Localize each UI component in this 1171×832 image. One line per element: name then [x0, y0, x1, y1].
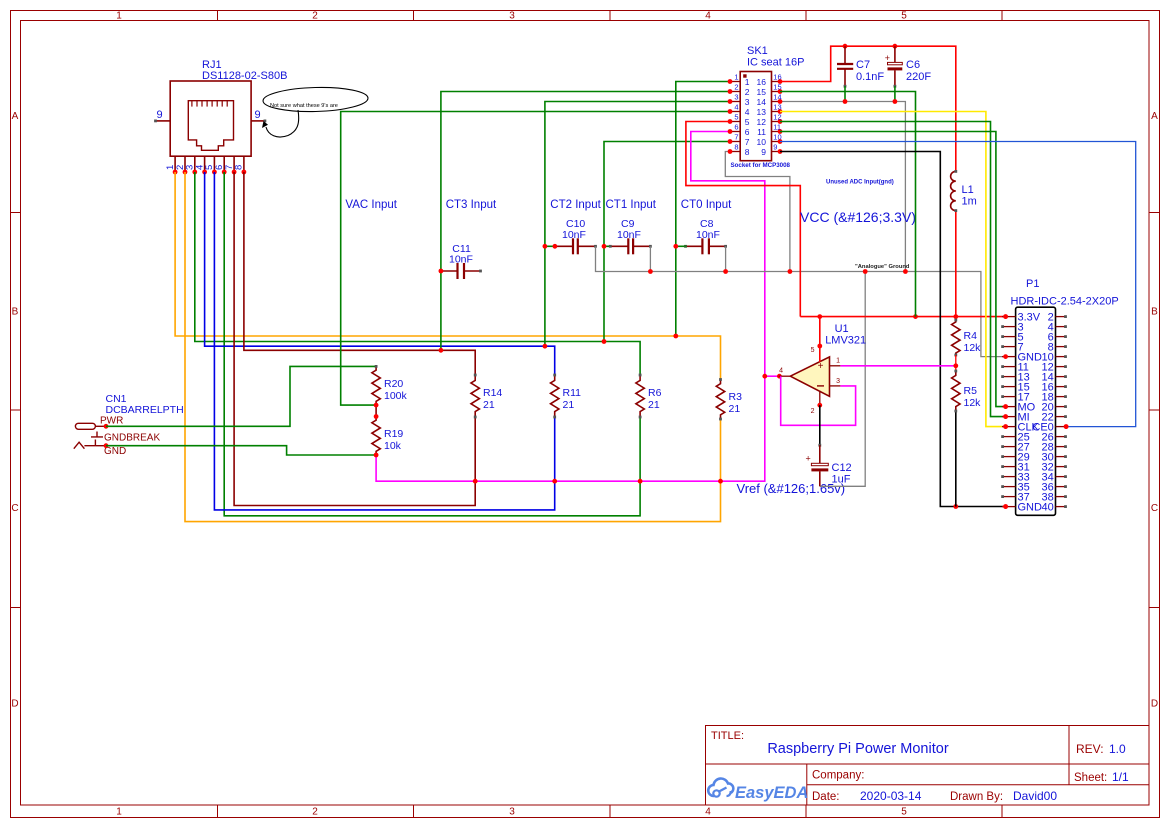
- svg-text:10k: 10k: [384, 440, 402, 452]
- svg-text:11: 11: [757, 127, 766, 137]
- svg-text:1: 1: [116, 807, 122, 818]
- svg-text:Raspberry Pi Power Monitor: Raspberry Pi Power Monitor: [767, 741, 948, 757]
- wire VCC from SK1 pin5 (red): [686, 122, 800, 317]
- svg-text:A: A: [12, 111, 19, 122]
- wire VAC input (green) SK1 pin4 to R20/R19 junction: [341, 112, 730, 406]
- svg-text:CT3 Input: CT3 Input: [446, 199, 497, 211]
- svg-text:5: 5: [901, 11, 907, 22]
- SK1 inner pin numbers: [745, 77, 766, 157]
- svg-text:4: 4: [779, 368, 783, 375]
- svg-text:P1: P1: [1026, 278, 1039, 290]
- svg-text:C12: C12: [832, 462, 852, 474]
- svg-text:3: 3: [734, 93, 738, 102]
- wire MISO (green) SK1 pin12 to P1 MI: [780, 122, 1008, 420]
- wire CT3 pair return (green) RJ1 pin6: [224, 172, 640, 516]
- svg-text:1/1: 1/1: [1112, 770, 1129, 784]
- wire Vref to op-amp pin4 (magenta): [762, 374, 781, 379]
- net label CT1 Input: [606, 199, 657, 211]
- svg-text:12k: 12k: [964, 397, 982, 409]
- resistor R5 12k: [952, 370, 982, 413]
- svg-text:4: 4: [745, 107, 750, 117]
- CN1 pin GND: [104, 443, 127, 457]
- wire CT2 input (green) SK1 pin3: [543, 102, 731, 349]
- svg-text:9: 9: [761, 147, 766, 157]
- svg-text:DCBARRELPTH: DCBARRELPTH: [106, 404, 184, 416]
- svg-text:100k: 100k: [384, 390, 408, 402]
- svg-text:Not sure what these 9's are: Not sure what these 9's are: [270, 103, 338, 109]
- wire C6 ground stub (green): [893, 86, 898, 104]
- svg-text:220F: 220F: [906, 71, 931, 83]
- wire VREF SK1 pin15 to VCC (green): [780, 92, 916, 317]
- svg-text:2: 2: [811, 408, 815, 415]
- svg-text:21: 21: [563, 399, 575, 411]
- svg-text:"Analogue" Ground: "Analogue" Ground: [855, 264, 910, 270]
- wire U1 pin2 to C12 (black): [819, 405, 821, 445]
- svg-text:R19: R19: [384, 428, 403, 440]
- svg-text:DS1128-02-S80B: DS1128-02-S80B: [202, 70, 287, 82]
- wire CT0 pair (orange) RJ1 pin1: [175, 172, 720, 380]
- capacitor C9 10nF: [602, 218, 652, 254]
- svg-text:10nF: 10nF: [449, 254, 473, 266]
- SK1 pins 9-16 (right): [772, 73, 783, 154]
- net label CT2 Input: [550, 199, 601, 211]
- svg-text:21: 21: [729, 403, 741, 415]
- wire CT3 pair (green) RJ1 pin3: [195, 172, 640, 375]
- RJ1 pin 9 (right): [251, 109, 266, 122]
- P1 pins left (1..39 odd): [1001, 314, 1015, 509]
- CN1 pin GNDBREAK: [104, 433, 160, 444]
- wire CT1 pair return (dark red) RJ1 pin7: [234, 172, 475, 506]
- RJ1 pins 1-8: [165, 156, 246, 174]
- svg-text:+: +: [818, 361, 824, 372]
- U1 pin 1 (IN+): [830, 358, 841, 366]
- svg-text:10nF: 10nF: [617, 229, 641, 241]
- U1 pin 2 (V-): [811, 391, 823, 415]
- svg-text:3: 3: [836, 378, 840, 385]
- svg-text:HDR-IDC-2.54-2X20P: HDR-IDC-2.54-2X20P: [1011, 296, 1119, 308]
- svg-text:40: 40: [1042, 501, 1054, 513]
- svg-text:R5: R5: [964, 385, 978, 397]
- svg-text:LMV321: LMV321: [825, 335, 866, 347]
- svg-text:21: 21: [648, 399, 660, 411]
- net label VAC Input: [345, 199, 397, 211]
- svg-text:9: 9: [773, 143, 777, 152]
- svg-text:A: A: [1151, 111, 1158, 122]
- capacitor C6 220F (polarized): [885, 46, 932, 87]
- svg-text:VAC Input: VAC Input: [345, 199, 397, 211]
- svg-text:B: B: [12, 307, 19, 318]
- wire Vref rail (magenta): [374, 132, 765, 484]
- SK1 note Socket for MCP3008: [731, 162, 791, 169]
- svg-text:VCC (&#126;3.3V): VCC (&#126;3.3V): [800, 209, 916, 225]
- svg-text:5: 5: [901, 807, 907, 818]
- svg-text:Company:: Company:: [812, 770, 864, 782]
- U1 pin 3 (IN-): [830, 378, 841, 386]
- wire CT0 pair return (orange) RJ1 pin2: [185, 172, 721, 522]
- svg-text:Sheet:: Sheet:: [1074, 772, 1107, 784]
- svg-text:R3: R3: [729, 391, 743, 403]
- svg-text:R20: R20: [384, 378, 403, 390]
- resistor R20 100k: [372, 365, 408, 407]
- svg-text:D: D: [11, 699, 18, 710]
- svg-text:6: 6: [734, 123, 738, 132]
- svg-text:9: 9: [254, 109, 260, 121]
- capacitor C7 0.1nF: [837, 46, 884, 87]
- svg-text:1m: 1m: [962, 196, 977, 208]
- svg-text:13: 13: [773, 103, 781, 112]
- title block: [706, 726, 1150, 806]
- svg-text:13: 13: [757, 107, 767, 117]
- svg-text:0.1nF: 0.1nF: [856, 71, 884, 83]
- svg-text:5: 5: [734, 113, 738, 122]
- svg-text:1.0: 1.0: [1109, 742, 1126, 756]
- wire MOSI (green) SK1 pin11 to P1 MO: [780, 132, 1008, 410]
- svg-text:5: 5: [811, 347, 815, 354]
- svg-text:B: B: [1151, 307, 1158, 318]
- wire C8 to AGND: [723, 246, 728, 274]
- wire C9 to AGND: [648, 246, 653, 274]
- svg-text:8: 8: [234, 165, 245, 170]
- capacitor C8 10nF: [673, 218, 727, 254]
- svg-text:14: 14: [773, 93, 781, 102]
- resistor R19 10k: [372, 415, 404, 456]
- svg-text:Socket for MCP3008: Socket for MCP3008: [731, 162, 791, 169]
- wire VCC rail (red): [800, 314, 1008, 319]
- svg-text:10: 10: [757, 137, 767, 147]
- svg-text:1: 1: [116, 11, 122, 22]
- connector CN1 DCBARRELPTH: [74, 393, 184, 449]
- net label CT0 Input: [681, 199, 732, 211]
- wire CT1 input (green) SK1 pin7: [602, 142, 730, 344]
- svg-text:10nF: 10nF: [696, 229, 720, 241]
- svg-text:10: 10: [773, 133, 781, 142]
- op-amp U1 LMV321: [790, 323, 866, 396]
- wire CT2 pair return (blue) RJ1 pin5: [214, 172, 554, 510]
- svg-text:SK1: SK1: [747, 45, 768, 57]
- net label "Analogue" Ground: [855, 264, 910, 270]
- wire op-amp out to divider midpoint (magenta): [840, 363, 958, 368]
- svg-text:R6: R6: [648, 387, 662, 399]
- annotation "Not sure what these 9's are": [262, 86, 368, 137]
- svg-text:R14: R14: [483, 387, 502, 399]
- wire PWR to R20 (green): [106, 366, 376, 426]
- resistor R4 12k: [952, 317, 982, 357]
- wire R20-R19 junction: [374, 403, 379, 419]
- svg-text:6: 6: [745, 127, 750, 137]
- svg-text:Date:: Date:: [812, 791, 840, 803]
- svg-text:2: 2: [745, 87, 750, 97]
- svg-text:4: 4: [705, 807, 711, 818]
- wire CT3 input (green) SK1 pin2: [439, 92, 731, 353]
- svg-text:11: 11: [773, 123, 781, 132]
- svg-text:1: 1: [745, 77, 750, 87]
- svg-text:10nF: 10nF: [562, 229, 586, 241]
- wire SK1 pin14 to AGND (grey): [780, 102, 908, 274]
- wire R4-R5 midpoint (red): [955, 355, 957, 371]
- capacitor C12 1uF (polarized): [806, 444, 852, 487]
- svg-text:12k: 12k: [964, 342, 982, 354]
- wire SCLK (yellow) SK1 pin13 to P1 CLK: [780, 112, 1008, 430]
- svg-text:7: 7: [734, 133, 738, 142]
- wire VDD top rail (red) SK1 pin16: [780, 44, 956, 172]
- U1 pin 4 (output): [779, 368, 791, 377]
- svg-text:15: 15: [773, 83, 781, 92]
- svg-text:16: 16: [757, 77, 767, 87]
- svg-text:2: 2: [312, 807, 318, 818]
- wire AGND to C12 (grey): [820, 269, 868, 486]
- svg-text:REV:: REV:: [1076, 742, 1104, 756]
- svg-text:12: 12: [757, 117, 767, 127]
- connector RJ1 DS1128-02-S80B: [170, 59, 287, 156]
- svg-text:3: 3: [745, 97, 750, 107]
- svg-text:GND: GND: [1018, 501, 1043, 513]
- net label Vref: [737, 481, 846, 496]
- svg-text:1: 1: [836, 358, 840, 365]
- svg-text:9: 9: [156, 109, 162, 121]
- wire feedback loop (magenta): [781, 376, 856, 425]
- RJ1 pin 9 (left): [154, 109, 170, 122]
- svg-text:+: +: [885, 53, 890, 63]
- net label CT3 Input: [446, 199, 497, 211]
- svg-text:Unused ADC Input(gnd): Unused ADC Input(gnd): [826, 180, 894, 186]
- wire L1 to VCC rail (red): [955, 211, 957, 317]
- capacitor C10 10nF: [543, 218, 597, 254]
- svg-text:R11: R11: [563, 387, 582, 399]
- net label VCC: [800, 209, 916, 225]
- svg-text:4: 4: [734, 103, 738, 112]
- svg-text:David00: David00: [1013, 789, 1057, 803]
- CN1 pin PWR: [100, 416, 123, 429]
- svg-text:8: 8: [734, 143, 738, 152]
- svg-text:8: 8: [745, 147, 750, 157]
- wire AGND rail (grey): [596, 246, 1006, 356]
- wire R5 bottom to GND (black): [955, 411, 957, 507]
- resistor R14 21: [471, 374, 502, 419]
- svg-text:Vref (&#126;1.65v): Vref (&#126;1.65v): [737, 481, 846, 496]
- svg-text:5: 5: [745, 117, 750, 127]
- svg-text:C: C: [11, 503, 18, 514]
- svg-text:16: 16: [773, 73, 781, 82]
- svg-text:EasyEDA: EasyEDA: [735, 784, 808, 802]
- wire CS (blue) SK1 pin10 to P1 CE0: [780, 142, 1136, 430]
- inductor L1 1m: [951, 170, 977, 212]
- svg-text:2020-03-14: 2020-03-14: [860, 789, 922, 803]
- svg-text:TITLE:: TITLE:: [711, 730, 744, 742]
- header P1 HDR-IDC-2.54-2X20P: [1011, 278, 1119, 515]
- U1 pin 5 (V+): [811, 317, 823, 362]
- svg-text:14: 14: [757, 97, 767, 107]
- EasyEDA logo: [708, 779, 808, 802]
- wire CT0 input (green) SK1 pin1: [673, 82, 730, 339]
- resistor R6 21: [636, 374, 662, 419]
- P1 pins right (2..40 even): [1056, 315, 1069, 508]
- svg-text:7: 7: [745, 137, 750, 147]
- svg-text:C: C: [1151, 503, 1158, 514]
- svg-text:CT2 Input: CT2 Input: [550, 199, 601, 211]
- svg-text:15: 15: [757, 87, 767, 97]
- svg-text:R4: R4: [964, 330, 978, 342]
- svg-text:C6: C6: [906, 59, 920, 71]
- svg-text:U1: U1: [835, 323, 849, 335]
- IC socket SK1 IC seat 16P: [740, 45, 804, 161]
- svg-text:CT0 Input: CT0 Input: [681, 199, 732, 211]
- svg-text:3: 3: [509, 807, 515, 818]
- svg-text:GNDBREAK: GNDBREAK: [104, 433, 160, 444]
- svg-text:3: 3: [509, 11, 515, 22]
- svg-text:D: D: [1151, 699, 1158, 710]
- svg-text:2: 2: [734, 83, 738, 92]
- wire DGND (black) SK1 pin9 to P1 GND40: [780, 152, 1008, 509]
- wire GND to R19 (green): [106, 446, 376, 455]
- SK1 pins 1-8 (left): [728, 73, 741, 154]
- capacitor C11 10nF: [439, 243, 482, 279]
- svg-text:IC seat 16P: IC seat 16P: [747, 57, 804, 69]
- svg-text:+: +: [806, 454, 811, 464]
- svg-text:12: 12: [773, 113, 781, 122]
- svg-text:21: 21: [483, 399, 495, 411]
- wire CT2 pair (blue) RJ1 pin4: [205, 172, 555, 375]
- resistor R11 21: [551, 374, 582, 419]
- svg-text:1uF: 1uF: [832, 474, 851, 486]
- svg-text:1: 1: [734, 73, 738, 82]
- svg-text:Drawn By:: Drawn By:: [950, 791, 1003, 803]
- note Unused ADC Input(gnd): [826, 180, 894, 186]
- wire SK1 pin8 to AGND (grey): [725, 152, 792, 274]
- P1 pin labels: [1018, 311, 1054, 513]
- svg-text:C7: C7: [856, 59, 870, 71]
- svg-text:CT1 Input: CT1 Input: [606, 199, 657, 211]
- wire C7 ground stub (green): [843, 86, 848, 104]
- svg-text:PWR: PWR: [100, 416, 123, 427]
- wire CT1 pair (dark red) RJ1 pin8: [244, 172, 475, 375]
- svg-text:L1: L1: [962, 184, 974, 196]
- resistor R3 21: [716, 378, 742, 420]
- svg-text:2: 2: [312, 11, 318, 22]
- svg-text:4: 4: [705, 11, 711, 22]
